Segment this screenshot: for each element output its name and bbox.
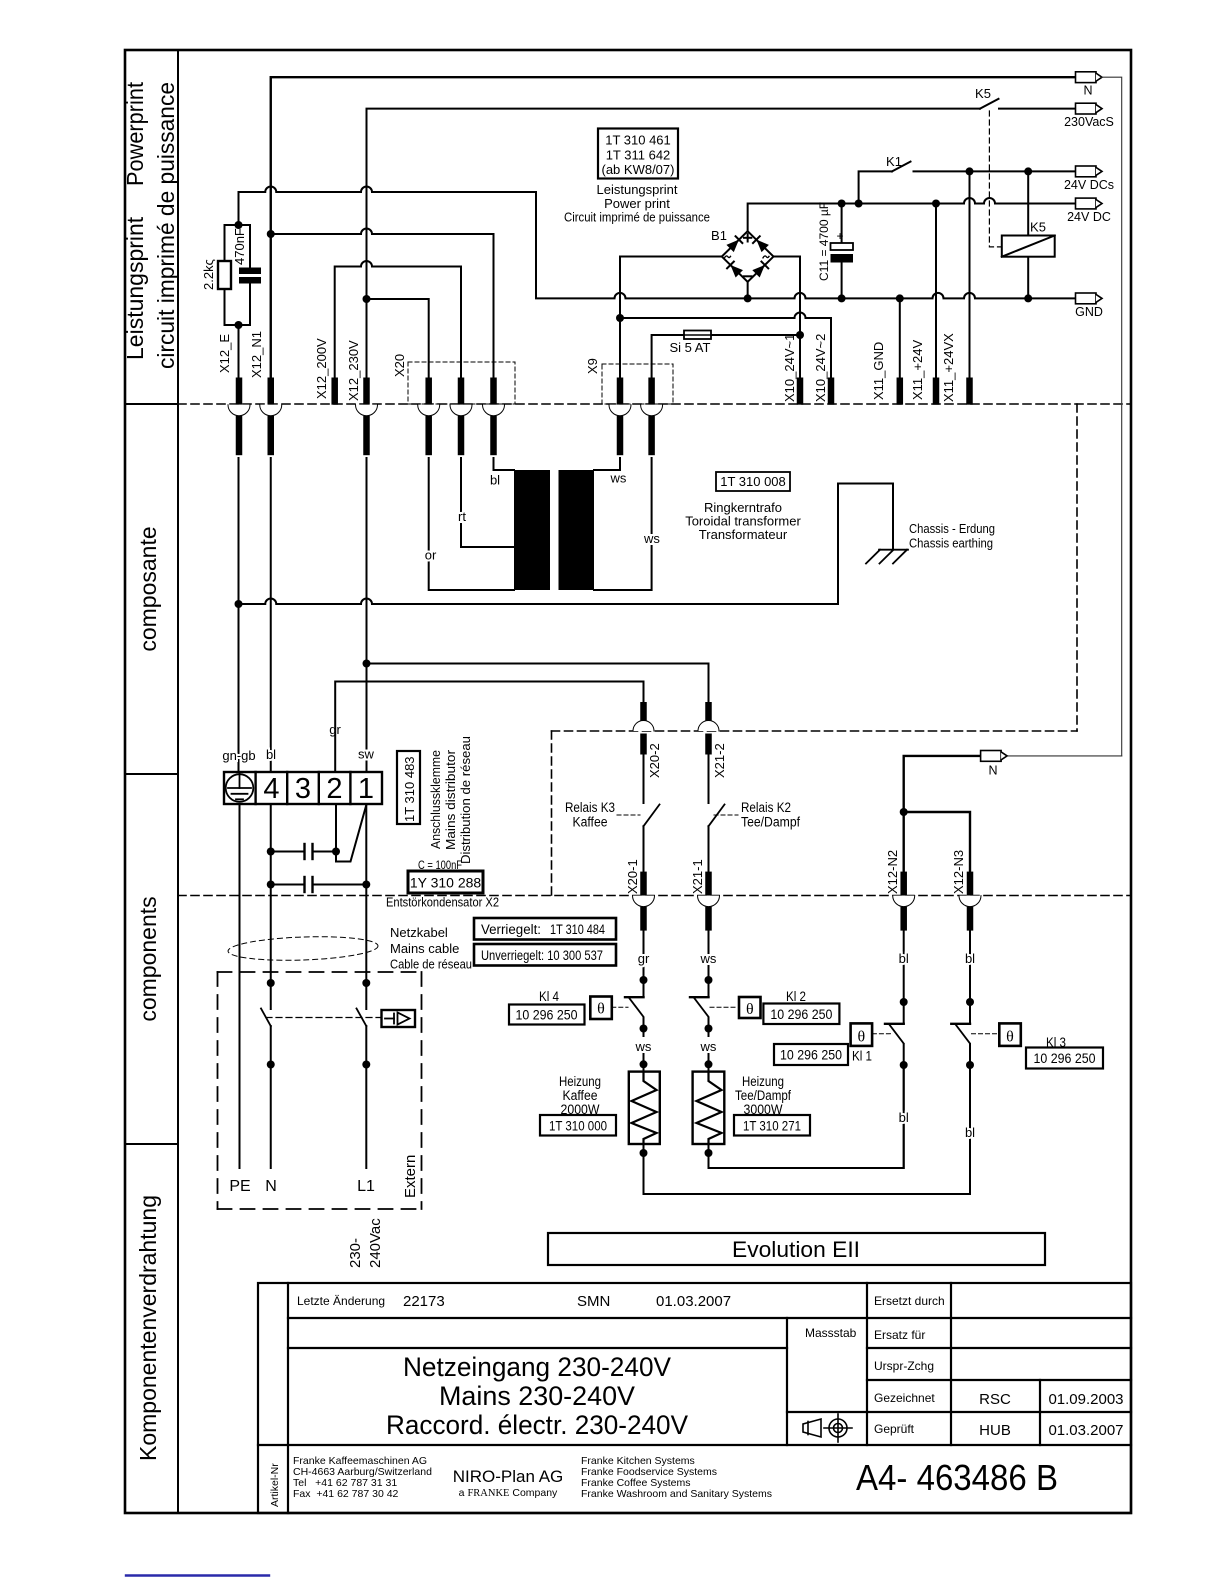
svg-text:1T 310 461: 1T 310 461 (605, 133, 671, 148)
connector X21-1 (705, 872, 712, 931)
svg-text:bl: bl (899, 1110, 909, 1125)
lower N flag feed wire (904, 756, 981, 872)
address block Franke Kaffeemaschinen (293, 1455, 432, 1500)
svg-text:1T 310 008: 1T 310 008 (720, 474, 786, 489)
svg-text:2.2kς: 2.2kς (201, 259, 216, 290)
node dots RC (235, 221, 243, 229)
label Ringkerntrafo (685, 500, 801, 542)
svg-text:X21-2: X21-2 (712, 743, 727, 778)
connector X11_+24V pin (pin only) (933, 378, 940, 405)
svg-text:Gezeichnet: Gezeichnet (874, 1391, 935, 1405)
svg-text:2: 2 (326, 773, 342, 805)
svg-text:X12-N2: X12-N2 (885, 850, 900, 894)
svg-text:Mains distributor: Mains distributor (443, 749, 458, 850)
fuse Si 5 AT (652, 335, 684, 378)
svg-text:(ab KW8/07): (ab KW8/07) (602, 162, 675, 177)
connector X11_+24VX pin (pin only) (966, 378, 973, 405)
svg-text:X9: X9 (585, 358, 600, 374)
earth distribution line y604 (239, 484, 894, 605)
svg-text:24V DC: 24V DC (1067, 210, 1111, 224)
svg-text:4: 4 (263, 773, 279, 805)
first angle projection symbol (803, 1414, 852, 1442)
connector X10_24V~1 pin (pin only) (797, 378, 804, 405)
connector X9 pin 1 (609, 378, 631, 456)
breaker switch on N (261, 1009, 271, 1027)
svg-text:1T 311 642: 1T 311 642 (606, 148, 671, 163)
svg-text:Relais K2: Relais K2 (741, 800, 791, 815)
flag 24V DC (1076, 198, 1103, 209)
wire X21-2 feed (367, 664, 709, 703)
svg-text:bl: bl (490, 473, 500, 488)
svg-text:Distribution de réseau: Distribution de réseau (458, 736, 473, 864)
relay coil K5 (1027, 171, 1029, 298)
X12_E to GND rail link (536, 192, 1076, 298)
svg-text:Si 5 AT: Si 5 AT (670, 340, 711, 355)
svg-text:Leistungsprint: Leistungsprint (597, 182, 678, 197)
bridge top to 24VDC rail (748, 198, 1076, 231)
svg-text:X20: X20 (392, 354, 407, 377)
svg-text:01.03.2007: 01.03.2007 (1048, 1422, 1123, 1439)
branch to X10_24V~2 (620, 313, 831, 378)
mains cable dashed ellipse (228, 934, 379, 962)
svg-text:Netzkabel: Netzkabel (390, 925, 448, 940)
svg-text:10 296 250: 10 296 250 (780, 1048, 842, 1063)
svg-text:circuit imprimé de puissance: circuit imprimé de puissance (153, 82, 179, 369)
bridge rectifier B1 (722, 231, 774, 282)
box Verriegelt (474, 918, 616, 940)
Extern dashed box (218, 972, 422, 1209)
neutral branch Kl3 (969, 931, 971, 1024)
svg-text:Kaffee: Kaffee (573, 815, 608, 830)
svg-text:230VacS: 230VacS (1064, 115, 1114, 129)
svg-text:Heizung: Heizung (559, 1074, 601, 1089)
suppression capacitor 2 (271, 884, 367, 886)
svg-text:K1: K1 (886, 154, 902, 169)
svg-text:bl: bl (899, 951, 909, 966)
svg-text:PE: PE (229, 1178, 250, 1195)
svg-text:ws: ws (635, 1039, 652, 1054)
wire N1 to X20 pin3 (271, 229, 494, 378)
theta box Kl4 (590, 997, 612, 1020)
svg-text:1T 310 000: 1T 310 000 (549, 1119, 607, 1134)
trafo wire ws bottom (594, 458, 652, 590)
svg-text:K5: K5 (1030, 220, 1046, 235)
Franke systems list (581, 1455, 772, 1500)
svg-text:470nF: 470nF (232, 228, 247, 265)
dashed power print region boundary (552, 404, 1078, 896)
connector X12_N1 pin (260, 378, 282, 456)
flag 230VacS (1076, 103, 1103, 114)
svg-text:01.03.2007: 01.03.2007 (656, 1293, 731, 1310)
svg-text:B1: B1 (711, 228, 727, 243)
svg-text:Entstörkondensator X2: Entstörkondensator X2 (386, 895, 499, 910)
connector X10_24V~2 pin (pin only) (828, 378, 835, 405)
svg-text:sw: sw (358, 747, 375, 762)
B1 plus minus tilde marks (744, 234, 752, 276)
svg-text:Ersetzt durch: Ersetzt durch (874, 1294, 945, 1308)
flag GND (1076, 293, 1103, 304)
label Netzkabel (390, 925, 472, 972)
svg-text:ws: ws (643, 531, 660, 546)
svg-text:ws: ws (610, 471, 627, 486)
connector X12_230V pin (356, 378, 378, 456)
box 1Y310288 (408, 871, 483, 893)
heater circuit 1 wire gr (643, 931, 645, 997)
relay K3 contact (643, 755, 645, 804)
svg-text:N: N (988, 764, 997, 778)
wire AC2 from bridge (774, 257, 801, 378)
left label column inner line (177, 50, 179, 1513)
svg-text:Kl 1: Kl 1 (852, 1049, 872, 1064)
svg-text:Kaffee: Kaffee (563, 1088, 598, 1103)
connector X20 pin 2 (450, 378, 472, 456)
svg-text:3: 3 (295, 773, 311, 805)
left column divider 2 (125, 773, 178, 775)
svg-text:or: or (425, 548, 437, 563)
svg-text:Tee/Dampf: Tee/Dampf (735, 1088, 791, 1103)
svg-text:Mains cable: Mains cable (390, 941, 459, 956)
big title Netzeingang (386, 1352, 688, 1440)
svg-text:Kl 4: Kl 4 (539, 989, 559, 1004)
connector X21-2 (705, 702, 712, 755)
svg-text:Anschlussklemme: Anschlussklemme (428, 750, 443, 849)
wire AC1 from bridge (620, 257, 722, 378)
svg-text:Fax +41 62 787 30 42: Fax +41 62 787 30 42 (293, 1488, 399, 1500)
junction dots DC rails (744, 167, 1033, 302)
capacitor 470nF (239, 268, 261, 284)
switch K1 (892, 162, 911, 172)
main dashed board boundary line 1 (178, 403, 1131, 405)
svg-text:X10_24V~2: X10_24V~2 (813, 334, 828, 402)
title block outline (258, 1283, 1131, 1513)
svg-text:X20-1: X20-1 (625, 859, 640, 894)
svg-text:components: components (135, 896, 161, 1021)
svg-text:1: 1 (358, 773, 374, 805)
svg-text:Netzeingang 230-240V: Netzeingang 230-240V (403, 1352, 671, 1382)
wire X11_+24V to 24V DC rail (935, 204, 937, 378)
svg-text:Tee/Dampf: Tee/Dampf (741, 815, 800, 830)
svg-text:Cable de réseau: Cable de réseau (390, 957, 472, 972)
terminal block (224, 772, 382, 804)
svg-text:Letzte Änderung: Letzte Änderung (297, 1294, 385, 1308)
connector X12_E pin (228, 378, 250, 456)
terminal 2 link wire to terminal 1 (336, 804, 366, 862)
trafo wire rt (461, 458, 514, 547)
svg-text:X12_230V: X12_230V (346, 340, 361, 401)
svg-text:Transformateur: Transformateur (699, 527, 788, 542)
svg-text:Leistungsprint: Leistungsprint (122, 216, 148, 360)
breaker actuator box (382, 1010, 416, 1027)
capacitor C11 (841, 204, 843, 244)
svg-text:N: N (265, 1178, 277, 1195)
connector X12-N2 (900, 872, 907, 931)
svg-text:NIRO-Plan AG: NIRO-Plan AG (453, 1467, 564, 1486)
svg-text:Relais K3: Relais K3 (565, 800, 615, 815)
connector X9 dashed box (602, 364, 673, 404)
svg-text:10 296 250: 10 296 250 (770, 1007, 832, 1022)
svg-text:Heizung: Heizung (742, 1074, 784, 1089)
wires X12_E X12_N1 X12_230V below connectors (238, 458, 240, 772)
chassis earthing symbol (866, 550, 908, 564)
svg-text:X10_24V~1: X10_24V~1 (782, 334, 797, 402)
svg-text:composante: composante (135, 526, 161, 651)
svg-text:Powerprint: Powerprint (122, 81, 148, 186)
box 1T310461 (598, 129, 678, 179)
svg-text:Massstab: Massstab (805, 1326, 857, 1340)
heater 1 Kaffee (629, 1072, 660, 1144)
svg-text:Raccord. électr. 230-240V: Raccord. électr. 230-240V (386, 1410, 688, 1440)
svg-text:Chassis - Erdung: Chassis - Erdung (909, 521, 995, 536)
wire gr up to relay feed (335, 682, 643, 773)
svg-text:bl: bl (266, 747, 276, 762)
svg-text:Extern: Extern (402, 1155, 419, 1198)
svg-text:X20-2: X20-2 (647, 743, 662, 778)
thin N link wire (1008, 77, 1122, 756)
wire K1 branch (859, 171, 892, 203)
K5 dashed control link (989, 111, 1001, 247)
trafo wire ws top (594, 458, 620, 470)
terminal earth symbol (226, 772, 254, 802)
connector X12_200V pin (pin only) (331, 378, 338, 405)
wire 230V to X20 pin1 (367, 299, 429, 378)
svg-text:X11_+24VX: X11_+24VX (941, 333, 956, 402)
connector X20 dashed box (408, 362, 515, 404)
svg-text:RSC: RSC (979, 1391, 1011, 1408)
svg-text:θ: θ (597, 1001, 605, 1018)
box 1T310483 rotated (397, 751, 420, 824)
main dashed board boundary line 2 (178, 895, 1131, 897)
svg-text:Franke Washroom and Sanitary S: Franke Washroom and Sanitary Systems (581, 1488, 772, 1500)
neutral branch Kl1 (903, 931, 905, 1024)
svg-text:GND: GND (1075, 305, 1103, 319)
theta box Kl3 (999, 1023, 1021, 1046)
wire 230VacS net (367, 109, 981, 378)
bridge bottom to GND (747, 282, 749, 299)
svg-text:θ: θ (1006, 1029, 1014, 1046)
svg-text:Unverriegelt: 10 300 537: Unverriegelt: 10 300 537 (481, 948, 603, 963)
svg-text:10 296 250: 10 296 250 (516, 1008, 578, 1023)
B1 diodes (726, 236, 768, 277)
labels PE N L1 (229, 1178, 375, 1195)
svg-text:01.09.2003: 01.09.2003 (1048, 1391, 1123, 1408)
connector X20 pin 3 (483, 378, 505, 456)
box 1T310008 (716, 472, 790, 491)
lower extern dots (267, 1061, 275, 1069)
svg-text:rt: rt (458, 509, 466, 524)
svg-text:X11_GND: X11_GND (871, 342, 886, 400)
theta box Kl1 (851, 1023, 873, 1046)
trafo wire or (429, 458, 514, 590)
svg-text:X12_N1: X12_N1 (249, 331, 264, 378)
svg-text:θ: θ (746, 1001, 754, 1018)
svg-text:1T 310 271: 1T 310 271 (743, 1119, 801, 1134)
switch K5 top (980, 99, 999, 109)
svg-text:1T 310 484: 1T 310 484 (550, 922, 605, 937)
svg-text:X12_200V: X12_200V (314, 338, 329, 399)
svg-text:Urspr-Zchg: Urspr-Zchg (874, 1359, 934, 1373)
wire X12_200V to X20 pin2 (335, 261, 461, 378)
heater circuit 2 wire ws (708, 931, 710, 997)
svg-text:C11 = 4700 µF: C11 = 4700 µF (817, 202, 831, 281)
thermal cutout Kl3 (951, 1023, 970, 1025)
svg-text:Komponentenverdrahtung: Komponentenverdrahtung (135, 1195, 161, 1461)
connector X11_GND pin (pin only) (897, 378, 904, 405)
blue underline mark bottom left (126, 1574, 269, 1576)
svg-text:ws: ws (700, 1039, 717, 1054)
wire N net top (271, 77, 1076, 377)
left column divider 3 (125, 1143, 178, 1145)
svg-text:Ersatz für: Ersatz für (874, 1328, 925, 1342)
breaker dashed link (266, 1017, 382, 1019)
drawing frame outer border (125, 50, 1131, 1513)
flag 24V DCs (1076, 166, 1103, 177)
connector X20-2 (640, 702, 647, 755)
svg-text:Verriegelt:: Verriegelt: (481, 922, 541, 937)
svg-text:ws: ws (700, 951, 717, 966)
svg-text:K5: K5 (975, 86, 991, 101)
svg-text:Chassis earthing: Chassis earthing (909, 536, 993, 551)
svg-text:a FRANKE Company: a FRANKE Company (459, 1487, 558, 1499)
svg-text:X11_+24V: X11_+24V (910, 340, 925, 400)
trafo wire bl (494, 458, 515, 470)
RC parallel network wiring (238, 325, 240, 378)
resistor 2.2k (218, 261, 231, 289)
svg-text:Evolution EII: Evolution EII (732, 1237, 860, 1262)
svg-text:Kl 2: Kl 2 (786, 989, 806, 1004)
svg-text:22173: 22173 (403, 1293, 445, 1310)
box Unverriegelt (474, 944, 616, 966)
svg-text:1T 310 483: 1T 310 483 (402, 756, 417, 822)
svg-text:X21-1: X21-1 (690, 859, 705, 894)
svg-text:gn-gb: gn-gb (222, 748, 255, 763)
thermal cutout Kl2 (690, 996, 709, 998)
thermal cutout Kl1 (885, 1023, 904, 1025)
svg-text:240Vac: 240Vac (367, 1218, 384, 1268)
theta box Kl2 (739, 997, 761, 1018)
terminal numbers (263, 773, 374, 805)
svg-text:bl: bl (965, 951, 975, 966)
heater 2 Tee/Dampf (693, 1072, 725, 1144)
pin labels row1 (217, 331, 956, 402)
thermal cutout Kl4 (625, 996, 644, 998)
flag N lower (981, 751, 1008, 762)
svg-text:X12-N3: X12-N3 (951, 850, 966, 894)
svg-text:Artikel-Nr: Artikel-Nr (269, 1463, 281, 1507)
svg-text:A4- 463486 B: A4- 463486 B (856, 1457, 1058, 1498)
svg-text:Geprüft: Geprüft (874, 1422, 915, 1436)
svg-text:24V DCs: 24V DCs (1064, 178, 1114, 192)
wire X11_GND to GND rail (899, 298, 901, 377)
svg-text:L1: L1 (357, 1178, 375, 1195)
svg-text:Mains 230-240V: Mains 230-240V (439, 1381, 635, 1411)
wires below terminal block (239, 804, 241, 1168)
relay K2 contact (708, 755, 710, 804)
connector X20 pin 1 (418, 378, 440, 456)
extern junction dots (267, 979, 275, 987)
svg-text:HUB: HUB (979, 1422, 1011, 1439)
Evolution EII title box (548, 1233, 1045, 1265)
svg-text:10 296 250: 10 296 250 (1034, 1051, 1096, 1066)
label Leistungsprint power print (564, 182, 710, 225)
breaker switch on L1 (357, 1009, 367, 1027)
svg-text:gr: gr (638, 951, 650, 966)
svg-text:230-: 230- (347, 1238, 364, 1268)
title row: Letzte Aenderung (297, 1294, 945, 1436)
flag N (1076, 72, 1103, 83)
suppression capacitor 1 (271, 851, 336, 853)
connector X12-N3 (967, 872, 974, 931)
svg-text:1Y 310 288: 1Y 310 288 (410, 875, 482, 891)
svg-text:N: N (1083, 84, 1092, 98)
svg-text:+: + (836, 229, 843, 243)
connector X20-1 (640, 872, 647, 931)
connector X9 pin 2 (641, 378, 663, 456)
svg-text:X12_E: X12_E (217, 334, 232, 373)
svg-text:bl: bl (965, 1125, 975, 1140)
svg-text:SMN: SMN (577, 1293, 610, 1310)
toroidal transformer windings (514, 470, 594, 590)
wire X11_+24VX to 24V DCs rail (969, 171, 971, 377)
svg-text:Circuit imprimé de puissance: Circuit imprimé de puissance (564, 210, 710, 225)
svg-text:θ: θ (857, 1029, 865, 1046)
left column divider 1 (125, 403, 178, 405)
